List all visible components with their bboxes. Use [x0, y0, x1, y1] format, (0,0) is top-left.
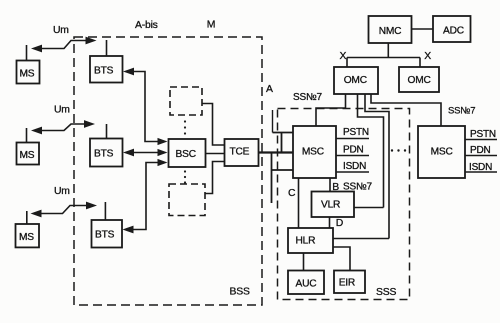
BTS3 antenna	[104, 202, 106, 220]
wire NMC to ADC	[412, 28, 434, 30]
svg-text:M: M	[207, 20, 215, 31]
svg-text:MS: MS	[20, 150, 35, 161]
box BTS2	[90, 139, 123, 167]
box TCE	[225, 139, 259, 166]
svg-text:VLR: VLR	[321, 199, 340, 210]
radio link row3	[34, 206, 94, 214]
svg-text:OMC: OMC	[344, 75, 367, 86]
svg-text:ADC: ADC	[443, 25, 464, 36]
box VLR	[312, 192, 355, 218]
box BTS3	[92, 220, 123, 248]
wire OMC to MSC	[316, 94, 346, 126]
svg-text:MS: MS	[20, 69, 35, 80]
box MS3	[16, 224, 40, 247]
dots between BSC and lower box	[184, 170, 186, 172]
wire HLR to EIR	[333, 247, 350, 271]
wire PDN right stub	[465, 155, 497, 157]
wire PSTN left stub	[336, 138, 369, 140]
wire crossbar to OMC left	[346, 58, 348, 68]
svg-text:A: A	[266, 84, 273, 95]
wire OMC SS7 link to MSC right	[371, 94, 441, 126]
box MSC left	[293, 126, 336, 178]
svg-text:C: C	[288, 188, 296, 199]
svg-text:SSS: SSS	[376, 287, 396, 298]
svg-text:HLR: HLR	[296, 236, 316, 247]
svg-text:X: X	[424, 51, 431, 62]
box MS2	[17, 143, 40, 165]
svg-text:BTS: BTS	[94, 149, 114, 160]
wire OMC to HLR	[365, 94, 389, 239]
wire crossbar to OMC right	[419, 58, 421, 68]
svg-text:X: X	[340, 51, 347, 62]
MS3 antenna	[26, 211, 28, 224]
box BSC	[169, 139, 206, 167]
svg-text:EIR: EIR	[339, 277, 355, 288]
box ADC	[433, 16, 471, 42]
trunk wire TCE to MSC	[259, 151, 294, 153]
dashed reserve box lower	[169, 184, 205, 216]
svg-text:BSC: BSC	[176, 149, 196, 160]
wire PDN left stub	[336, 155, 369, 157]
wire BTS2 to BSC	[126, 152, 165, 154]
wire HLR to AUC	[303, 253, 305, 271]
box AUC	[288, 271, 324, 295]
wire BTS1 to BSC	[126, 72, 165, 142]
wire upper dashed box to TCE	[202, 104, 225, 146]
dots between upper box and BSC	[184, 120, 186, 122]
dots between MSC groups	[391, 149, 393, 151]
A-interface lower branch vertical	[271, 153, 273, 204]
svg-text:MSC: MSC	[431, 146, 453, 157]
svg-text:MS: MS	[19, 232, 34, 243]
A-interface upper branch horizontal	[273, 132, 294, 134]
wire OMC to VLR	[358, 94, 384, 208]
wire NMC down	[387, 43, 389, 58]
svg-text:PSTN: PSTN	[470, 129, 496, 140]
A-interface stub from SS7 border	[272, 110, 274, 133]
svg-text:MSC: MSC	[302, 146, 324, 157]
svg-text:SS№7: SS№7	[448, 106, 475, 117]
MS2 antenna	[26, 128, 28, 143]
svg-text:AUC: AUC	[296, 278, 317, 289]
wire BSC to TCE	[206, 153, 225, 155]
box NMC	[369, 16, 412, 43]
radio link row2	[34, 124, 92, 131]
svg-text:SS№7: SS№7	[293, 92, 322, 103]
wire PSTN right stub	[465, 139, 497, 141]
svg-text:PDN: PDN	[343, 144, 364, 155]
svg-text:D: D	[336, 218, 343, 229]
svg-text:ISDN: ISDN	[343, 161, 366, 172]
box OMC left	[334, 67, 378, 94]
svg-text:BSS: BSS	[230, 287, 250, 298]
wire VLR right to OMC riser	[354, 207, 384, 209]
wire B interface MSC to VLR	[329, 178, 331, 192]
BSS dashed boundary	[74, 37, 262, 305]
svg-text:BTS: BTS	[95, 230, 115, 241]
svg-text:TCE: TCE	[230, 147, 250, 158]
A-interface lower branch horizontal	[272, 169, 294, 171]
svg-text:PDN: PDN	[470, 145, 491, 156]
dashed reserve box upper	[170, 87, 202, 115]
wire lower dashed box to TCE	[205, 162, 225, 194]
box MSC right	[418, 126, 465, 178]
svg-text:NMC: NMC	[379, 26, 402, 37]
wire ISDN right stub	[465, 171, 497, 173]
box MS1	[17, 61, 40, 84]
wire BTS3 to BSC	[126, 163, 165, 230]
box HLR	[288, 228, 333, 253]
box OMC right	[399, 67, 439, 92]
BTS1 antenna	[106, 40, 108, 56]
wire ISDN left stub	[336, 171, 369, 173]
svg-text:Um: Um	[54, 186, 70, 197]
box BTS1	[90, 56, 123, 83]
BTS2 antenna	[106, 124, 108, 139]
svg-text:BTS: BTS	[94, 66, 114, 77]
wire C interface MSC to HLR	[298, 178, 300, 228]
wire NMC crossbar	[347, 57, 420, 59]
box EIR	[334, 271, 365, 294]
radio link row1 (zigzag double arrow)	[34, 41, 94, 49]
svg-text:Um: Um	[54, 105, 70, 116]
svg-text:PSTN: PSTN	[343, 127, 369, 138]
SSS dashed boundary	[278, 109, 410, 300]
A-interface upper branch vertical	[281, 133, 283, 153]
svg-text:Um: Um	[53, 25, 69, 36]
wire HLR right loop	[333, 238, 389, 240]
svg-text:OMC: OMC	[408, 75, 431, 86]
wire D interface VLR to HLR	[329, 217, 331, 228]
svg-text:A-bis: A-bis	[135, 20, 158, 31]
MS1 antenna	[26, 45, 28, 61]
